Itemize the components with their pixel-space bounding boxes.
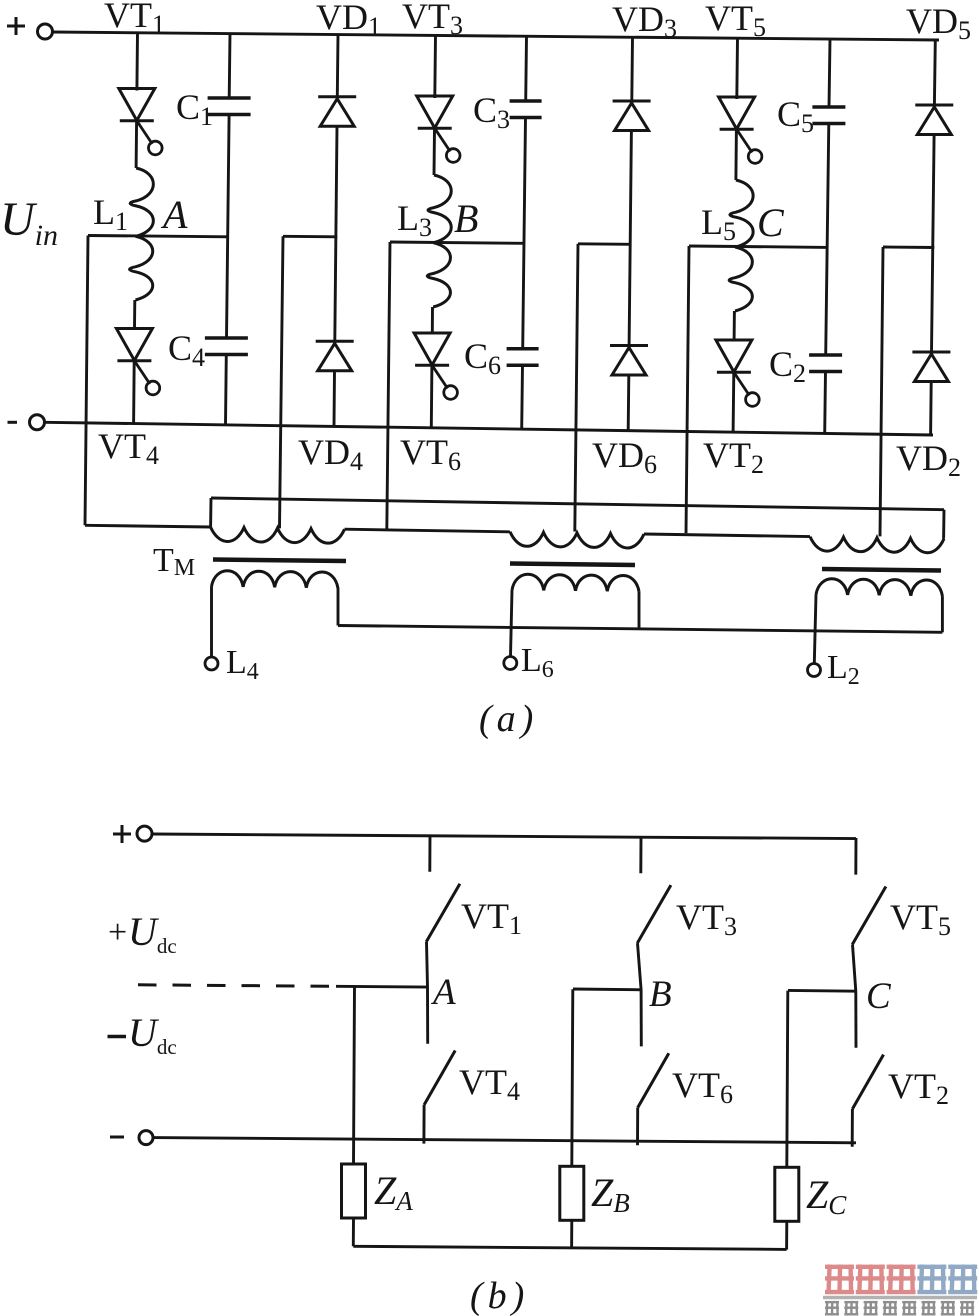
wire: VD5 branch at node C level [883,246,934,249]
wire: top DC rail (a) [53,32,939,40]
wire: C3 to C6 [523,118,526,349]
wire: rail drop to VT5 [854,838,857,875]
switch VT1 [426,884,460,942]
wire: node B line [390,242,525,243]
wire: C2 to bottom rail [823,372,827,434]
wire: C6 to bottom rail [520,365,524,429]
wire: VT4 to bottom rail [132,361,135,423]
wire: top rail to VT1 [135,33,139,91]
thyristor VT6 [414,333,457,399]
transformer core bar phase A [213,560,346,562]
capacitor C3 [510,101,542,118]
thyristor VT1 [119,89,162,155]
wire: top rail to VD5 [933,40,937,105]
wire: node to VT6 [640,990,643,1047]
svg-text:C: C [757,200,785,245]
diode VD6 [610,346,648,376]
wire: primary line left [85,525,211,527]
wire: inductor to VT4 [133,300,136,329]
wire: Z common return [353,1246,786,1249]
wire: bus left drop [209,498,212,527]
wire: primary top bus [211,498,944,510]
inductor L1 upper half [130,168,153,236]
wire: node B to ZB [572,989,573,1166]
- terminal (b) [139,1131,153,1145]
svg-text:A: A [160,192,188,237]
svg-text:C: C [866,976,892,1017]
wire: top rail to VT3 [433,35,437,98]
transformer secondary winding phase A [212,571,338,588]
wire: VD1 branch at node A level [283,235,337,238]
svg-text:(b): (b) [470,1275,529,1316]
wire: inductor to VT2 [733,311,736,340]
diode VD5 [915,105,953,135]
wire: ZB to common [570,1220,573,1248]
svg-text:A: A [430,972,456,1013]
diode VD4 [316,341,354,371]
wire: node A drop to transformer primary [85,236,88,526]
wire: VD2 to bottom rail [929,382,933,435]
wire: VT6 to bottom rail [636,1108,639,1146]
transformer secondary winding phase B [512,574,639,591]
wire: C4 to bottom rail [224,355,228,425]
wire: VT5 to inductor [734,129,737,180]
wire: VD3 to VD6 [629,131,631,346]
wire: secondary C left lead [814,595,816,664]
wire: top rail to C5 [829,39,830,107]
switch VT2 [852,1055,883,1109]
transformer primary winding phase B [510,532,644,548]
transformer primary winding phase C [810,537,944,553]
watermark logo bottom right [823,1265,977,1316]
wire: VD1 to VD4 [335,126,337,341]
diode VD1 [318,97,356,127]
terminal L2 [808,664,821,677]
+ terminal (b) [137,826,152,841]
minus of -Udc [108,1035,127,1039]
svg-text:+: + [108,914,127,951]
wire: VD5 to VD2 [932,135,935,353]
wire: VD3 branch drop to primary [575,244,578,532]
svg-text:B: B [454,196,478,241]
wire: top rail to VT5 [735,38,739,99]
wire: node C drop to transformer primary [686,246,689,533]
wire: secondary A right lead [337,588,340,626]
wire: ZC to common [785,1221,788,1249]
wire: primary line B-C [644,534,810,537]
capacitor C1 [208,98,251,115]
thyristor VT4 [116,329,159,395]
wire: VT6 to bottom rail [430,365,434,427]
inductor L5 upper half [730,180,753,247]
wire: bottom rail (b) [153,1138,856,1143]
plus sign (a) [7,17,25,35]
wire: inductor to VT6 [431,307,434,333]
inductor L3 upper half [428,175,451,243]
wire: node to VT2 [854,991,857,1048]
minus sign (b) [110,1136,124,1139]
thyristor VT3 [417,96,460,162]
diode VD3 [613,101,651,131]
wire: bus right drop [942,510,945,539]
wire: node C line [689,246,829,247]
wire: node B drop to transformer primary [387,242,390,530]
inductor L3 lower half [427,243,450,307]
wire: VT5 to node C [853,945,856,992]
wire: secondary B right lead [638,592,641,629]
transformer core bar phase B [510,564,635,566]
wire: bottom DC rail (a) [45,422,933,435]
wire: top rail to VD1 [336,35,340,97]
wire: node C to ZC [787,991,788,1168]
capacitor C2 [809,355,842,372]
wire: node C line [788,989,857,993]
wire: top rail (b) [152,834,856,839]
wire: VD5 branch drop to primary [880,247,883,536]
wire: node to VT4 [426,987,429,1044]
wire: rail drop to VT1 [428,835,431,872]
wire: VT1 to node A [427,942,428,987]
wire: rail drop to VT3 [639,837,642,874]
switch VT4 [424,1051,455,1105]
wire: VT2 to bottom rail [732,372,736,432]
wire: node A to ZA [354,987,355,1165]
minus sign (a) [8,421,18,424]
svg-text:(a): (a) [479,698,538,740]
wire: secondary A left lead [210,587,213,657]
thyristor VT2 [716,340,759,406]
wire: node B line [573,988,642,992]
switch VT3 [637,885,671,943]
wire: VT3 to inductor [433,128,436,175]
wire: secondary B left lead [511,590,513,656]
impedance ZA [342,1164,366,1218]
wire: VD4 to bottom rail [333,371,336,426]
impedance ZC [775,1167,799,1221]
wire: top rail to C3 [524,36,528,101]
wire: node A line [336,985,429,989]
wire: VT3 to node B [638,943,642,990]
wire: VD3 branch at node B level [578,242,632,245]
thyristor VT5 [719,97,762,163]
wire: secondary common bus [338,626,942,633]
wire: VD1 branch drop to primary [280,236,284,528]
inductor L1 lower half [130,236,153,300]
wire: VT2 to bottom rail [851,1109,854,1147]
wire: VT4 to bottom rail [422,1105,425,1144]
wire: node A line [88,236,228,237]
transformer core bar phase C [822,569,941,571]
terminal L6 [504,657,517,670]
switch VT5 [852,887,886,945]
input - terminal (a) [30,415,45,430]
wire: VT1 to inductor [135,121,138,168]
wire: C5 to C2 [826,124,829,356]
capacitor C5 [812,107,845,124]
transformer primary winding phase A [211,527,345,543]
input + terminal (a) [38,24,53,39]
svg-text:B: B [649,974,672,1015]
wire: ZA to common [352,1218,355,1246]
wire: primary line A-B [345,529,511,532]
dashed line to node A [138,985,336,987]
transformer secondary winding phase C [816,579,942,596]
switch VT6 [638,1053,669,1107]
capacitor C4 [205,338,248,355]
wire: top rail to VD3 [630,37,634,101]
diode VD2 [912,352,950,382]
terminal L4 [205,657,218,670]
wire: C1 to C4 [227,115,230,339]
impedance ZB [560,1166,584,1220]
wire: VD6 to bottom rail [627,375,630,430]
plus sign (b) [113,825,131,843]
capacitor C6 [507,349,539,366]
wire: secondary C right lead [941,596,944,632]
inductor L5 lower half [729,247,752,311]
wire: top rail to C1 [228,34,232,98]
